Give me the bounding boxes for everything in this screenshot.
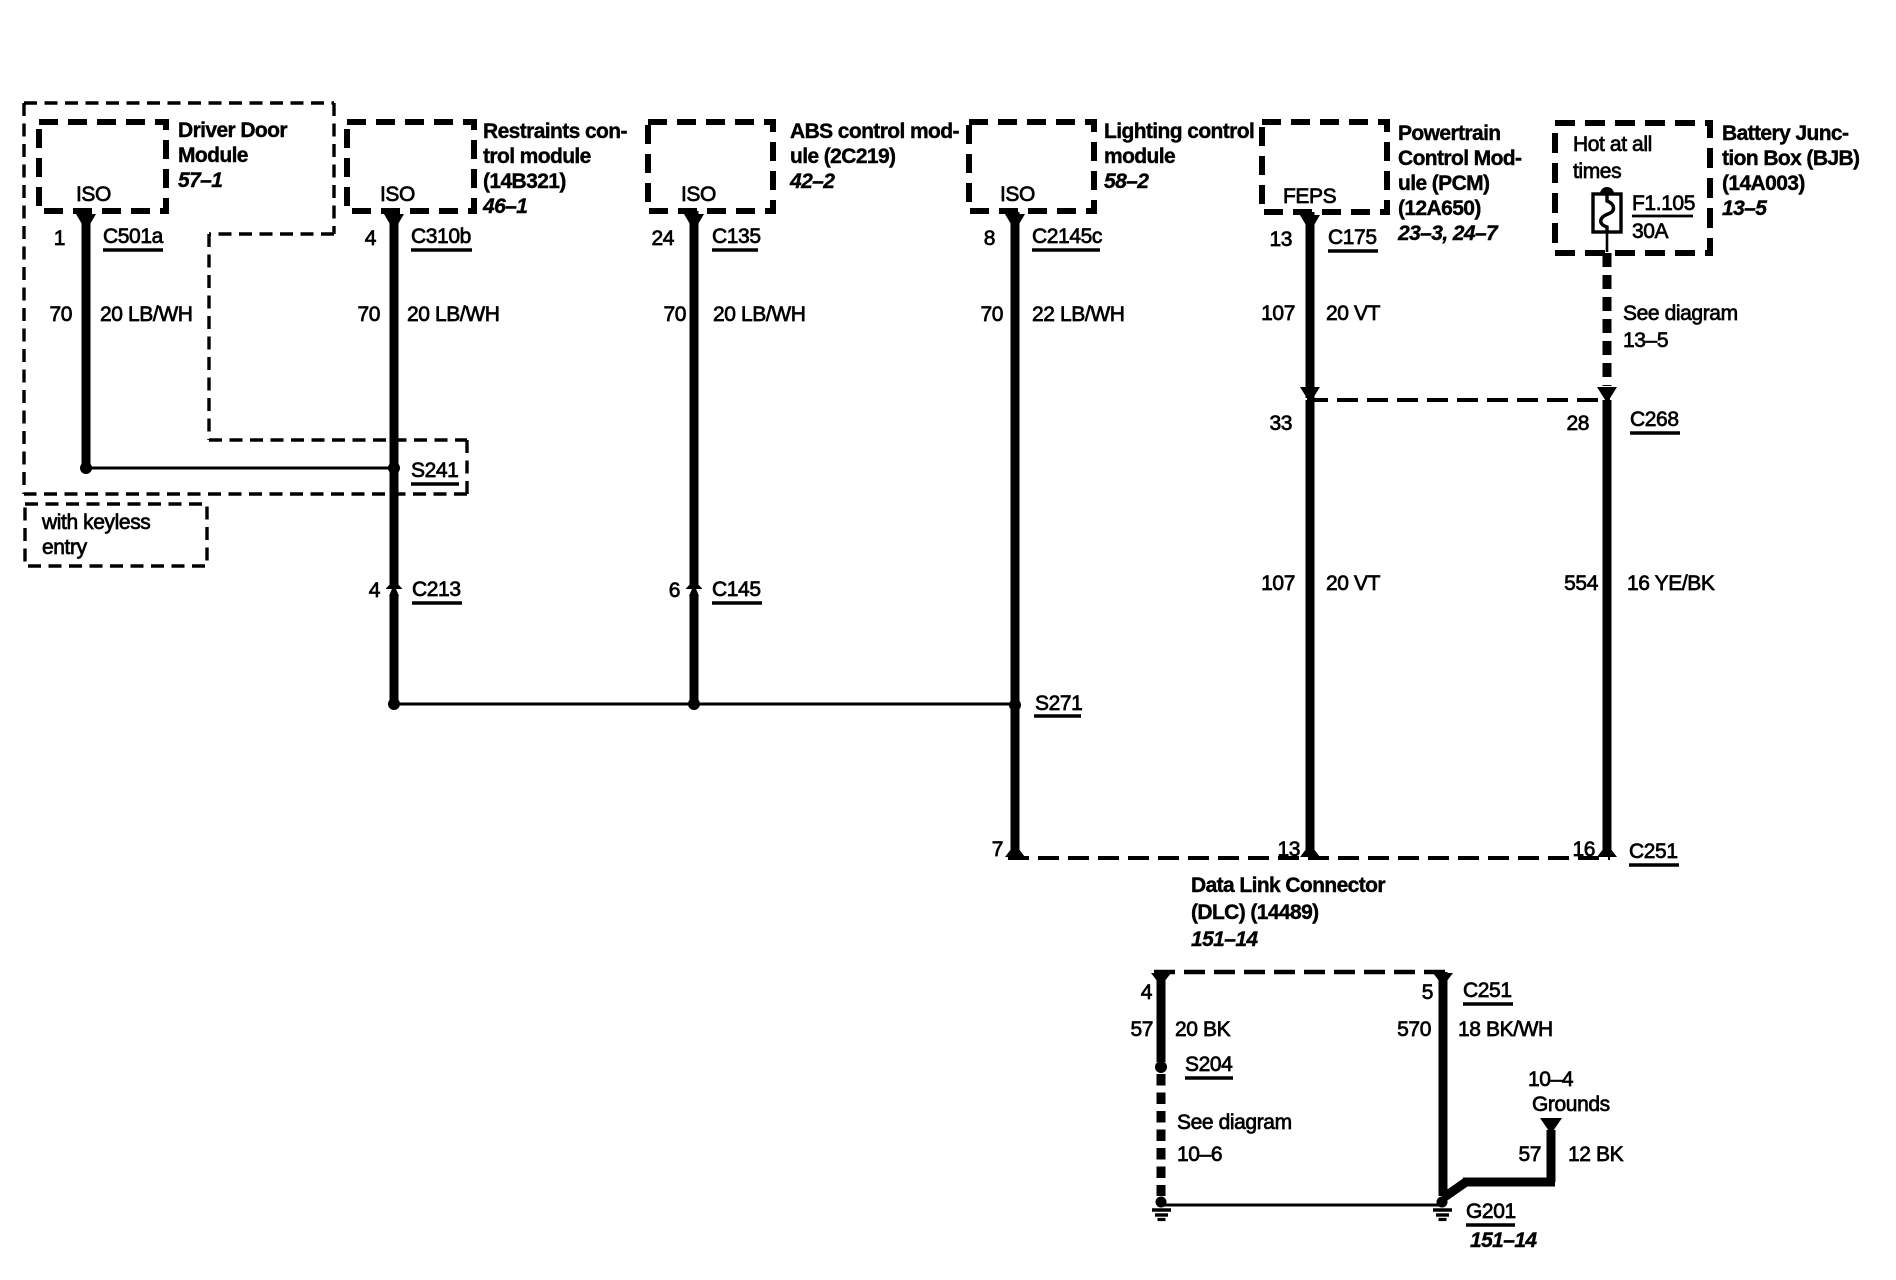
svg-text:C2145c: C2145c — [1032, 225, 1102, 248]
svg-text:ISO: ISO — [380, 183, 415, 206]
svg-text:S271: S271 — [1035, 692, 1082, 715]
wire W3 lower part to splice line — [690, 595, 699, 704]
node dot at W3 bottom — [688, 698, 700, 710]
svg-text:23–3, 24–7: 23–3, 24–7 — [1397, 222, 1499, 245]
svg-text:ISO: ISO — [681, 183, 716, 206]
label Hot at all times — [1573, 133, 1652, 183]
svg-text:C251: C251 — [1629, 840, 1678, 863]
connector C145 inline arrow — [686, 580, 703, 589]
ground symbol G201 — [1433, 1197, 1452, 1220]
pin arrow at C135 — [684, 214, 704, 231]
svg-text:13–5: 13–5 — [1623, 329, 1668, 352]
wire W6 dashed from BJB fuse — [1603, 253, 1612, 386]
svg-text:13: 13 — [1277, 838, 1300, 861]
label with keyless entry box — [25, 504, 207, 566]
svg-text:13–5: 13–5 — [1722, 197, 1767, 220]
label S241 — [411, 459, 459, 484]
svg-text:ISO: ISO — [1000, 183, 1035, 206]
svg-text:tion Box (BJB): tion Box (BJB) — [1722, 147, 1859, 170]
svg-text:107: 107 — [1261, 572, 1295, 595]
svg-text:module: module — [1104, 145, 1175, 168]
svg-text:4: 4 — [365, 227, 377, 250]
svg-text:12 BK: 12 BK — [1568, 1143, 1624, 1166]
wire W9 horizontal segment — [1463, 1178, 1555, 1187]
svg-text:C175: C175 — [1328, 226, 1377, 249]
svg-text:Driver Door: Driver Door — [178, 119, 287, 142]
svg-text:C135: C135 — [712, 225, 761, 248]
label ABS control module (2C219) 42-2 — [789, 120, 959, 193]
label Driver Door Module 57-1 — [178, 119, 287, 192]
module U3 ABS control module box — [648, 122, 773, 211]
svg-text:C310b: C310b — [411, 225, 471, 248]
pin foot at DLC pin 16 — [1597, 844, 1617, 857]
label S271 — [1034, 692, 1082, 716]
svg-text:with keyless: with keyless — [41, 511, 150, 534]
pin arrow at C175 — [1300, 215, 1320, 232]
label 10-4 Grounds — [1528, 1068, 1610, 1116]
svg-text:F1.105: F1.105 — [1632, 192, 1695, 215]
label See diagram 10-6 — [1177, 1111, 1292, 1166]
label S204 — [1185, 1053, 1233, 1078]
node S271 junction dot — [1009, 699, 1021, 711]
svg-text:70: 70 — [49, 303, 72, 326]
connector label C501a — [103, 225, 164, 250]
svg-text:20 BK: 20 BK — [1175, 1018, 1231, 1041]
svg-text:1: 1 — [54, 227, 65, 250]
label Powertrain Control Module (PCM) (12A650) 23-3, 24-7 — [1397, 122, 1522, 245]
svg-text:57–1: 57–1 — [178, 169, 222, 192]
svg-text:C145: C145 — [712, 578, 761, 601]
svg-text:57: 57 — [1518, 1143, 1541, 1166]
svg-text:Control Mod-: Control Mod- — [1398, 147, 1522, 170]
svg-text:33: 33 — [1269, 412, 1292, 435]
node dot at W2 bottom — [388, 698, 400, 710]
svg-text:20 LB/WH: 20 LB/WH — [407, 303, 500, 326]
svg-text:ABS control mod-: ABS control mod- — [790, 120, 959, 143]
connector DLC dashed line C251 — [1008, 856, 1610, 860]
svg-text:4: 4 — [369, 579, 381, 602]
svg-text:24: 24 — [651, 227, 674, 250]
node S204 junction dot — [1155, 1061, 1167, 1073]
svg-text:Powertrain: Powertrain — [1398, 122, 1501, 145]
label Restraints control module (14B321) 46-1 — [482, 120, 627, 218]
svg-text:C251: C251 — [1463, 979, 1512, 1002]
svg-text:22 LB/WH: 22 LB/WH — [1032, 303, 1125, 326]
svg-text:70: 70 — [980, 303, 1003, 326]
fuse F1.105 30A symbol — [1593, 187, 1621, 252]
module U4 Lighting control module box — [969, 122, 1094, 211]
node S241 junction dot — [388, 462, 400, 474]
svg-text:Grounds: Grounds — [1532, 1093, 1610, 1116]
svg-text:7: 7 — [992, 838, 1003, 861]
svg-text:FEPS: FEPS — [1283, 185, 1337, 208]
svg-text:18 BK/WH: 18 BK/WH — [1458, 1018, 1553, 1041]
svg-text:70: 70 — [357, 303, 380, 326]
svg-text:10–4: 10–4 — [1528, 1068, 1574, 1091]
svg-text:S241: S241 — [411, 459, 458, 482]
svg-text:C213: C213 — [412, 578, 461, 601]
wire W2 circuit 70 from Restraints module (upper part) — [390, 211, 399, 589]
wire W7 circuit 57 from DLC pin 4 to S204 — [1157, 972, 1166, 1062]
svg-text:S204: S204 — [1185, 1053, 1233, 1076]
wire W5 lower part from C268 to DLC pin 13 — [1306, 400, 1315, 856]
connector label C2145c — [1032, 225, 1102, 250]
wire W2 lower part to splice line — [390, 595, 399, 704]
module U5 Powertrain Control Module box — [1262, 122, 1387, 212]
label with keyless entry text — [41, 511, 150, 559]
svg-text:107: 107 — [1261, 302, 1295, 325]
svg-text:ISO: ISO — [76, 183, 111, 206]
svg-text:(14B321): (14B321) — [483, 170, 566, 193]
svg-text:Restraints con-: Restraints con- — [483, 120, 627, 143]
svg-text:6: 6 — [669, 579, 680, 602]
pin arrow at C310b — [384, 214, 404, 231]
connector label C213 — [412, 578, 462, 603]
svg-text:20 LB/WH: 20 LB/WH — [713, 303, 806, 326]
svg-text:ule (PCM): ule (PCM) — [1398, 172, 1489, 195]
wire W9 diagonal jog to G201 — [1443, 1182, 1466, 1198]
svg-text:42–2: 42–2 — [789, 170, 835, 193]
label F1.105 30A — [1632, 192, 1695, 243]
svg-text:554: 554 — [1564, 572, 1599, 595]
connector C251 lower half dashed line — [1154, 970, 1450, 975]
svg-text:28: 28 — [1566, 412, 1589, 435]
wire W1 circuit 70 from Driver Door Module to S241 — [82, 211, 91, 468]
wire W7 dashed lower part to ground — [1157, 1074, 1166, 1196]
svg-text:ule (2C219): ule (2C219) — [790, 145, 895, 168]
wire W9 arrow from 10-4 Grounds — [1540, 1118, 1562, 1134]
pin arrow at C501a (below ISO box) — [76, 214, 96, 231]
wire W3 circuit 70 from ABS module (upper part) — [690, 211, 699, 589]
svg-text:Battery Junc-: Battery Junc- — [1722, 122, 1849, 145]
module BJB Battery Junction Box outline — [1555, 123, 1710, 253]
svg-text:10–6: 10–6 — [1177, 1143, 1222, 1166]
svg-text:4: 4 — [1141, 981, 1153, 1004]
svg-text:See diagram: See diagram — [1177, 1111, 1292, 1134]
svg-text:58–2: 58–2 — [1104, 170, 1149, 193]
module U2 Restraints control module box — [347, 122, 474, 211]
label G201 151-14 — [1466, 1200, 1537, 1252]
label Lighting control module 58-2 — [1104, 120, 1254, 193]
wire W9 circuit 57 12 BK (vertical) — [1547, 1130, 1556, 1182]
connector label C310b — [411, 225, 472, 250]
label See diagram 13-5 — [1623, 302, 1738, 352]
connector label C268 — [1630, 408, 1680, 433]
svg-text:Module: Module — [178, 144, 248, 167]
ground symbol (left, below S204) — [1152, 1197, 1171, 1220]
pin trumpet at C251 pin 5 — [1433, 973, 1453, 986]
connector C268 arrow on W5 — [1300, 387, 1320, 403]
connector label C251 (lower) — [1463, 979, 1513, 1004]
svg-text:Lighting control: Lighting control — [1104, 120, 1254, 143]
wire splice line S241 (thin horizontal) — [86, 467, 394, 470]
svg-text:times: times — [1573, 160, 1621, 183]
connector C213 inline arrow — [386, 580, 403, 589]
wire W8 circuit 570 from DLC pin 5 to G201 — [1439, 972, 1448, 1196]
svg-text:46–1: 46–1 — [482, 195, 527, 218]
svg-text:(14A003): (14A003) — [1722, 172, 1805, 195]
connector label C175 — [1328, 226, 1378, 251]
svg-text:(12A650): (12A650) — [1398, 197, 1481, 220]
svg-text:entry: entry — [42, 536, 88, 559]
connector label C251 (DLC) — [1629, 840, 1679, 865]
svg-text:57: 57 — [1130, 1018, 1153, 1041]
svg-text:151–14: 151–14 — [1470, 1229, 1537, 1252]
connector label C145 — [712, 578, 762, 603]
label Data Link Connector (DLC) (14489) 151-14 — [1191, 874, 1385, 951]
wire thin ground bus line — [1161, 1204, 1440, 1207]
connector C268 arrow on W6 — [1597, 387, 1617, 403]
connector box ISO (Driver Door Module) — [39, 122, 166, 211]
node dot at W1 end (S241 line left) — [80, 462, 92, 474]
svg-text:(DLC) (14489): (DLC) (14489) — [1191, 901, 1319, 924]
svg-text:G201: G201 — [1466, 1200, 1516, 1223]
svg-text:See diagram: See diagram — [1623, 302, 1738, 325]
svg-text:20 VT: 20 VT — [1326, 572, 1381, 595]
svg-text:70: 70 — [663, 303, 686, 326]
pin foot at DLC pin 7 — [1005, 844, 1025, 857]
connector C268 dashed line — [1307, 398, 1610, 402]
svg-text:5: 5 — [1422, 981, 1433, 1004]
wire W6 circuit 554 from C268 to DLC pin 16 — [1603, 400, 1612, 856]
pin trumpet at C251 pin 4 — [1151, 973, 1171, 986]
svg-text:570: 570 — [1397, 1018, 1431, 1041]
svg-text:trol module: trol module — [483, 145, 591, 168]
svg-text:8: 8 — [984, 227, 995, 250]
svg-text:Hot at all: Hot at all — [1573, 133, 1652, 156]
svg-text:C268: C268 — [1630, 408, 1679, 431]
pin arrow at C2145c — [1005, 214, 1025, 231]
svg-text:20 VT: 20 VT — [1326, 302, 1381, 325]
wire W4 circuit 70 from Lighting module to DLC pin 7 — [1011, 212, 1020, 856]
wire splice line S271 (thin horizontal) — [394, 703, 1015, 706]
svg-text:C501a: C501a — [103, 225, 164, 248]
svg-text:13: 13 — [1269, 228, 1292, 251]
svg-text:Data Link Connector: Data Link Connector — [1191, 874, 1385, 897]
pin foot at DLC pin 13 — [1300, 844, 1320, 857]
wire W5 circuit 107 from PCM (upper part to C268) — [1306, 212, 1315, 398]
svg-text:16 YE/BK: 16 YE/BK — [1627, 572, 1715, 595]
svg-text:30A: 30A — [1632, 220, 1669, 243]
label Battery Junction Box (BJB) (14A003) 13-5 — [1722, 122, 1859, 220]
svg-text:151–14: 151–14 — [1191, 928, 1258, 951]
module U1 Driver Door Module outline (dashed region) — [24, 103, 467, 494]
svg-text:20 LB/WH: 20 LB/WH — [100, 303, 193, 326]
svg-text:16: 16 — [1572, 838, 1595, 861]
connector label C135 — [712, 225, 761, 250]
